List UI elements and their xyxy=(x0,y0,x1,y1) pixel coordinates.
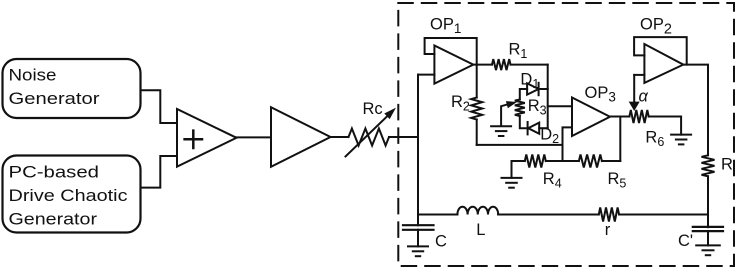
resistor Rc (variable) xyxy=(349,129,390,146)
op-amp OP1 xyxy=(434,46,473,84)
wire: summer to buffer xyxy=(237,136,272,138)
op-amp OP3 xyxy=(572,98,610,137)
capacitor C' xyxy=(707,215,709,228)
op-amp OP2 xyxy=(644,44,683,83)
resistor R6 (potentiometer) xyxy=(629,110,648,123)
svg-text:R: R xyxy=(721,156,733,174)
node: input rail xyxy=(417,75,419,215)
op-amp buffer xyxy=(271,107,331,167)
svg-text:α: α xyxy=(639,88,649,106)
wire: rail to OP1 non-inv input xyxy=(418,74,434,76)
wire: R4/R5 node xyxy=(512,160,621,162)
wire: buffer to Rc xyxy=(331,136,349,138)
wire: bottom bus xyxy=(418,214,708,216)
svg-text:Generator: Generator xyxy=(9,89,100,108)
diode D1 xyxy=(527,83,539,94)
wire: rail to OP3 inv input xyxy=(548,105,572,107)
wire: R5 feedback to OP3 output xyxy=(619,117,621,162)
svg-text:C: C xyxy=(435,233,447,251)
block: Noise Generator xyxy=(3,59,141,118)
ground (R4) xyxy=(502,177,522,179)
wire: chaotic generator to summer lower input xyxy=(141,156,178,188)
op-amp summer (+) xyxy=(177,109,237,167)
wire: diode block left rail xyxy=(520,89,528,128)
wiper arrow alpha xyxy=(633,75,635,103)
svg-text:Generator: Generator xyxy=(9,210,98,229)
resistor R1 xyxy=(492,59,511,70)
svg-text:Noise: Noise xyxy=(9,66,57,85)
resistor R xyxy=(702,155,715,176)
capacitor C xyxy=(417,215,419,226)
svg-text:C': C' xyxy=(678,232,693,250)
block: PC-based Drive Chaotic Generator xyxy=(3,156,141,233)
diode D2 xyxy=(528,123,539,134)
inductor L xyxy=(457,207,498,215)
svg-text:Rc: Rc xyxy=(363,100,383,118)
ground (C') xyxy=(696,244,720,246)
svg-text:r: r xyxy=(605,221,611,239)
wire: OP2 inv input to wiper xyxy=(634,74,644,76)
resistor R3 (trimmer) xyxy=(515,99,525,116)
resistor R5 xyxy=(579,155,602,168)
resistor R4 xyxy=(525,155,546,168)
wire: R4 to ground xyxy=(511,161,513,178)
wire: OP1 feedback loop xyxy=(425,38,477,65)
svg-text:Drive Chaotic: Drive Chaotic xyxy=(9,186,129,205)
svg-text:PC-based: PC-based xyxy=(9,163,100,182)
wire: OP3 output to R6 xyxy=(610,116,629,118)
wire: OP2 output to R xyxy=(683,65,708,156)
dashed enclosure xyxy=(398,3,734,266)
wire: R1 to diode block rail xyxy=(511,64,548,66)
ground (R6) xyxy=(671,134,691,136)
wire: noise generator to summer upper input xyxy=(141,90,178,123)
wire: R6 to ground xyxy=(649,117,681,135)
ground (C) xyxy=(408,245,428,247)
svg-text:L: L xyxy=(476,221,485,239)
wire: Rc into dashed box xyxy=(389,136,418,138)
ground (R3 wiper) xyxy=(491,125,511,127)
resistor r xyxy=(599,208,619,222)
wire: diode block right rail xyxy=(547,65,549,129)
resistor R2 xyxy=(476,65,478,98)
wire: OP2 feedback loop xyxy=(634,37,687,65)
wire: OP1 output xyxy=(473,64,492,66)
wire: OP3 non-inv input branch xyxy=(563,127,573,161)
wire: R2 bottom to OP3 inverting node xyxy=(477,144,563,146)
wiper arrow to ground xyxy=(501,104,510,126)
